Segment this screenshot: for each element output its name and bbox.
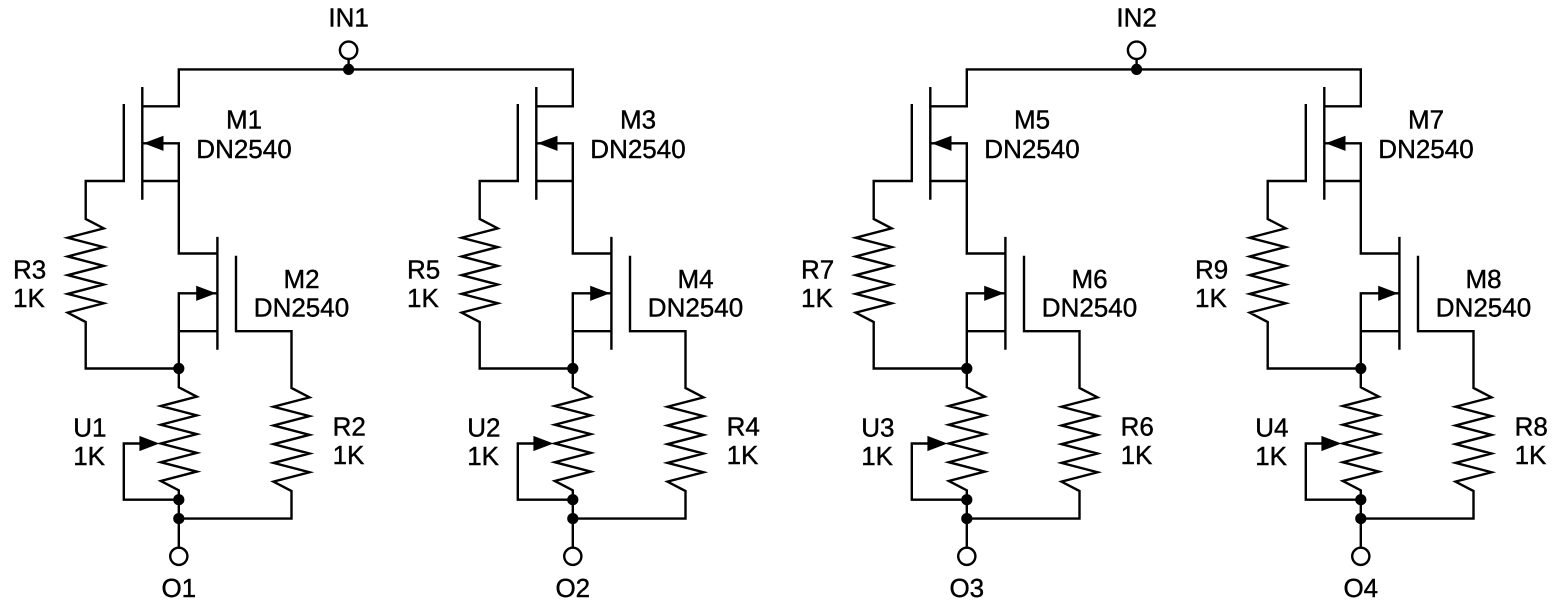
- svg-text:O2: O2: [555, 573, 590, 603]
- svg-text:M3: M3: [620, 105, 656, 135]
- svg-text:M7: M7: [1408, 105, 1444, 135]
- svg-text:M4: M4: [677, 264, 713, 294]
- svg-text:1K: 1K: [407, 283, 439, 313]
- svg-text:DN2540: DN2540: [196, 134, 291, 164]
- svg-text:R9: R9: [1195, 255, 1228, 285]
- svg-text:1K: 1K: [1255, 441, 1287, 471]
- svg-text:O4: O4: [1343, 573, 1378, 603]
- svg-text:IN1: IN1: [328, 3, 368, 33]
- svg-text:R3: R3: [13, 255, 46, 285]
- svg-text:1K: 1K: [73, 441, 105, 471]
- svg-text:M1: M1: [226, 105, 262, 135]
- svg-text:R5: R5: [407, 255, 440, 285]
- svg-text:U3: U3: [861, 412, 894, 442]
- svg-text:U4: U4: [1255, 412, 1288, 442]
- svg-text:R7: R7: [801, 255, 834, 285]
- svg-text:U2: U2: [467, 412, 500, 442]
- svg-text:O3: O3: [949, 573, 984, 603]
- svg-text:DN2540: DN2540: [648, 292, 743, 322]
- svg-text:R4: R4: [727, 412, 760, 442]
- svg-text:DN2540: DN2540: [254, 292, 349, 322]
- svg-text:M6: M6: [1071, 264, 1107, 294]
- svg-text:DN2540: DN2540: [590, 134, 685, 164]
- svg-text:R8: R8: [1515, 412, 1548, 442]
- svg-text:IN2: IN2: [1116, 3, 1156, 33]
- svg-text:DN2540: DN2540: [1042, 292, 1137, 322]
- svg-text:U1: U1: [73, 412, 106, 442]
- svg-text:1K: 1K: [1195, 283, 1227, 313]
- svg-text:1K: 1K: [13, 283, 45, 313]
- svg-text:O1: O1: [161, 573, 196, 603]
- svg-text:DN2540: DN2540: [984, 134, 1079, 164]
- svg-text:1K: 1K: [861, 441, 893, 471]
- svg-text:DN2540: DN2540: [1378, 134, 1473, 164]
- svg-text:M8: M8: [1465, 264, 1501, 294]
- svg-text:M2: M2: [283, 264, 319, 294]
- svg-text:1K: 1K: [333, 440, 365, 470]
- svg-text:R6: R6: [1121, 412, 1154, 442]
- svg-text:1K: 1K: [801, 283, 833, 313]
- svg-text:1K: 1K: [467, 441, 499, 471]
- svg-text:1K: 1K: [1121, 440, 1153, 470]
- svg-text:M5: M5: [1014, 105, 1050, 135]
- svg-text:1K: 1K: [727, 440, 759, 470]
- svg-text:DN2540: DN2540: [1436, 292, 1531, 322]
- svg-text:R2: R2: [333, 412, 366, 442]
- svg-text:1K: 1K: [1515, 440, 1547, 470]
